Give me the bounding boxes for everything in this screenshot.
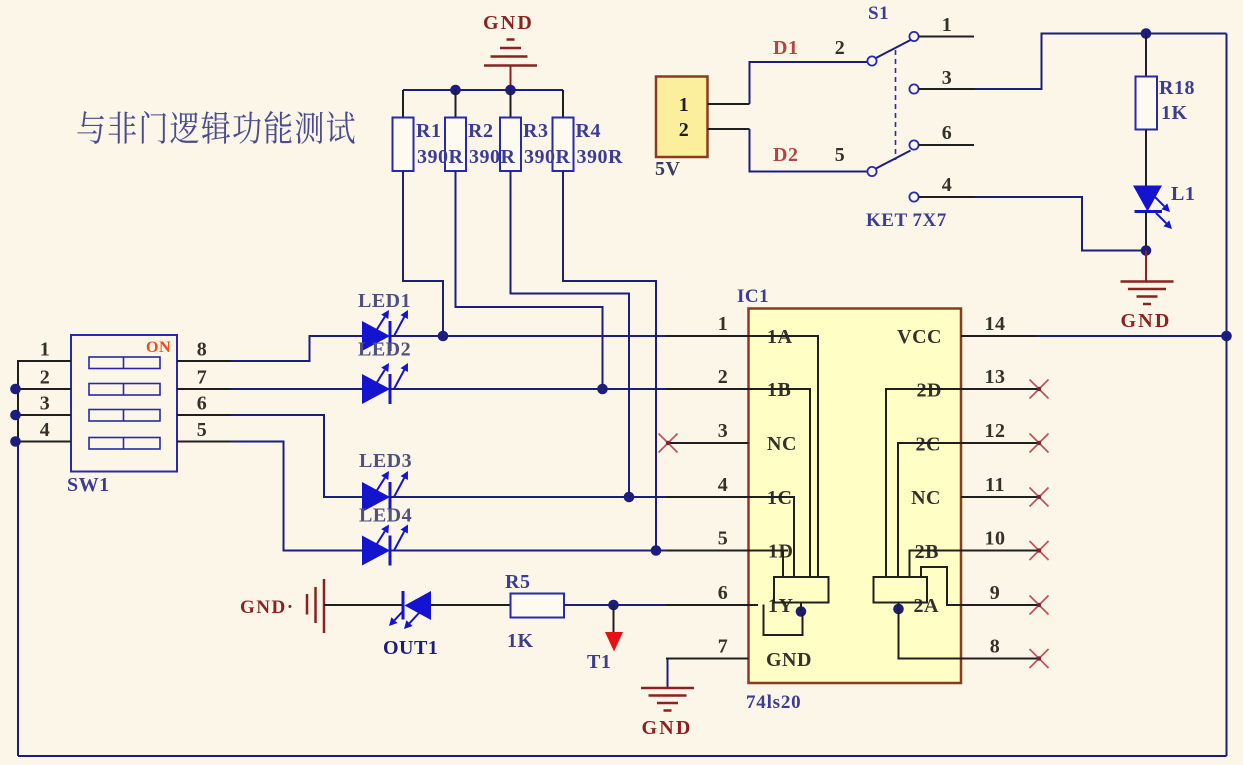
pin IC1-6 stub <box>666 604 749 606</box>
svg-text:GND: GND <box>483 12 534 34</box>
wire GND to OUT1 <box>324 604 403 606</box>
wire top resistor bus <box>403 89 563 91</box>
svg-text:NC: NC <box>911 487 941 509</box>
svg-text:D1: D1 <box>773 37 798 59</box>
no-connect X IC pin8 <box>1030 649 1049 668</box>
pin S1-4 stub <box>919 196 975 198</box>
svg-text:74ls20: 74ls20 <box>746 692 801 713</box>
wire IC internal 1B to gate <box>749 389 811 577</box>
svg-text:390R: 390R <box>524 146 571 168</box>
LED LED3 <box>362 471 408 512</box>
svg-text:8: 8 <box>990 636 1001 658</box>
wire IC internal 1C to gate <box>749 497 795 577</box>
node junction R18 top <box>1141 28 1152 39</box>
svg-text:5: 5 <box>718 528 729 550</box>
pin IC1-9 stub <box>961 604 1037 606</box>
node junction bus pin4 <box>10 436 21 447</box>
pin IC1-5 stub <box>666 550 749 552</box>
ground GND (below L1) <box>1120 251 1173 333</box>
pin 5V-2 stub <box>708 128 750 130</box>
pin S1-6 terminal circle <box>909 140 918 149</box>
pin S1-2 terminal circle <box>867 56 876 65</box>
wire L1 to GND node <box>1145 212 1147 251</box>
wire S1 pin3 to top rail <box>975 34 1227 90</box>
svg-text:GND: GND <box>766 649 812 671</box>
svg-text:2: 2 <box>679 119 690 141</box>
svg-text:6: 6 <box>942 122 953 144</box>
pin IC1-11 stub <box>961 496 1037 498</box>
svg-text:LED1: LED1 <box>358 290 411 312</box>
svg-text:R4: R4 <box>576 120 601 142</box>
IC U1 74ls20 body <box>749 309 962 684</box>
pin IC1-14 stub <box>961 335 1037 337</box>
wire net D2 (5V pin2 to S1 pin5) <box>750 129 868 172</box>
no-connect X IC pin13 <box>1030 380 1049 399</box>
svg-text:5: 5 <box>197 419 208 441</box>
svg-text:11: 11 <box>985 474 1005 496</box>
svg-text:1: 1 <box>718 313 729 335</box>
pin IC1-12 stub <box>961 442 1037 444</box>
pin SW1-7 stub <box>177 388 231 390</box>
svg-text:4: 4 <box>718 474 729 496</box>
wire bottom rail <box>18 755 1227 757</box>
pin 5V-1 stub <box>708 103 750 105</box>
pin S1-1 stub <box>919 36 974 38</box>
wire SW1 left pin 1 <box>17 360 71 362</box>
svg-text:4: 4 <box>942 174 953 196</box>
wire LED4 to IC pin5 (1D row) <box>390 550 666 552</box>
LED LED4 <box>362 525 408 566</box>
svg-text:3: 3 <box>718 420 729 442</box>
resistor R2 body <box>445 90 466 171</box>
resistor R4 body <box>553 90 574 171</box>
svg-text:1K: 1K <box>507 630 534 652</box>
wire IC internal 2A feed <box>921 567 961 605</box>
svg-text:390R: 390R <box>417 146 464 168</box>
node junction bus pin3 <box>10 410 21 421</box>
svg-text:12: 12 <box>985 420 1006 442</box>
svg-text:S1: S1 <box>868 3 889 24</box>
svg-text:IC1: IC1 <box>737 286 769 307</box>
svg-text:2: 2 <box>40 367 51 389</box>
svg-text:14: 14 <box>985 313 1006 335</box>
pin S1-3 terminal circle <box>909 84 918 93</box>
svg-text:KET 7X7: KET 7X7 <box>866 210 947 231</box>
svg-text:GND: GND <box>641 717 692 739</box>
svg-text:R5: R5 <box>505 571 530 593</box>
value label R2 390R <box>468 120 516 168</box>
svg-text:3: 3 <box>942 67 953 89</box>
gate body gate1 (1A-1D NAND) <box>774 577 829 603</box>
svg-text:6: 6 <box>197 393 208 415</box>
svg-text:GND: GND <box>1120 310 1171 332</box>
wire LED2 to IC pin2 (1B row) <box>390 388 666 390</box>
wire SW1 pin5 to LED4 <box>231 442 362 551</box>
pin S1-4 terminal circle <box>909 192 918 201</box>
svg-text:6: 6 <box>718 582 729 604</box>
resistor R5 1K <box>505 571 564 652</box>
wire OUT1 to R5 <box>431 604 511 606</box>
wire IC internal 1D to gate <box>749 550 789 552</box>
pin IC1-4 stub <box>666 496 749 498</box>
svg-text:OUT1: OUT1 <box>383 637 438 659</box>
pin S1-5 terminal circle <box>867 167 876 176</box>
svg-text:7: 7 <box>197 367 208 389</box>
wire IC internal 1A to gate <box>749 336 819 577</box>
switch S1 arm lower (pin5-pin6) <box>875 151 911 170</box>
LED OUT1 <box>389 591 431 629</box>
svg-text:VCC: VCC <box>897 326 942 348</box>
node junction R1/LED1 row <box>438 331 449 342</box>
power source 5V connector <box>655 77 708 181</box>
resistor R18 1K <box>1136 34 1195 187</box>
wire left bus (SW1 commons) lower <box>17 442 19 757</box>
pin IC1-13 stub <box>961 388 1037 390</box>
node junction R3-top / GND stem <box>505 85 516 96</box>
wire IC internal 2D to gate2 <box>886 389 961 577</box>
pin SW1-8 stub <box>177 360 231 362</box>
wire R5 to IC pin6 (1Y row) <box>564 604 666 606</box>
node junction R4/1D row <box>651 545 662 556</box>
wire IC internal gate2 to pin8 <box>899 609 962 659</box>
svg-text:LED4: LED4 <box>359 505 412 527</box>
LED LED1 <box>362 310 408 351</box>
node junction R3/1C row <box>624 492 635 503</box>
wire SW1 pin6 to LED3 <box>231 415 362 497</box>
svg-text:1: 1 <box>679 94 690 116</box>
switch SW1 DIP-4 <box>67 335 177 496</box>
wire R2 to LED2 row <box>456 171 603 389</box>
wire SW1 left pin 4 <box>17 441 71 443</box>
wire net D1 (5V pin1 to S1 pin2) <box>750 62 868 104</box>
switch S1 linkage dashed <box>895 50 897 160</box>
node junction R2/LED2 row <box>597 384 608 395</box>
pin IC1-1 stub <box>666 335 749 337</box>
pin IC1-3 stub (NC) <box>668 442 749 444</box>
svg-text:L1: L1 <box>1171 183 1195 205</box>
svg-text:R1: R1 <box>416 120 441 142</box>
value label R1 390R <box>416 120 464 168</box>
svg-text:1: 1 <box>942 14 953 36</box>
wire LED1 to IC pin1 (1A row) <box>390 335 666 337</box>
wire left bus (SW1 commons) upper <box>17 360 19 442</box>
svg-text:8: 8 <box>197 339 208 361</box>
wire S1 pin4 to L1 cathode net <box>975 197 1146 251</box>
wire IC internal 1Y loop <box>749 604 759 606</box>
node junction VCC pin14 / right rail <box>1221 331 1232 342</box>
ground GND (IC pin7) <box>641 659 694 740</box>
value label R3 390R <box>523 120 571 168</box>
pin S1-1 terminal circle <box>909 32 918 41</box>
pin IC1-7 stub <box>666 658 749 660</box>
svg-text:GND·: GND· <box>240 597 295 618</box>
svg-text:R18: R18 <box>1159 77 1195 99</box>
no-connect X IC pin10 <box>1030 541 1049 560</box>
svg-text:5V: 5V <box>655 158 681 180</box>
node gate1 output <box>796 606 807 617</box>
node junction T1 tap <box>608 600 619 611</box>
svg-text:D2: D2 <box>773 144 798 166</box>
svg-text:390R: 390R <box>469 146 516 168</box>
pin SW1-5 stub <box>177 441 231 443</box>
wire IC pin14 VCC to right rail <box>1037 335 1227 337</box>
svg-text:2: 2 <box>835 37 846 59</box>
pin SW1-6 stub <box>177 414 231 416</box>
svg-text:2C: 2C <box>916 434 941 456</box>
svg-text:ON: ON <box>146 339 171 356</box>
LED L1 <box>1133 186 1172 230</box>
svg-text:2B: 2B <box>915 541 939 563</box>
node gate2 output <box>893 604 904 615</box>
ground GND (top, above R1-R4) <box>483 12 537 90</box>
no-connect X IC pin3 <box>659 434 678 453</box>
LED LED2 <box>362 363 408 404</box>
svg-text:T1: T1 <box>587 651 611 673</box>
svg-text:13: 13 <box>985 366 1006 388</box>
svg-text:9: 9 <box>990 582 1001 604</box>
svg-text:LED2: LED2 <box>358 339 411 361</box>
testpoint T1 <box>587 605 623 673</box>
title 与非门逻辑功能测试 <box>77 111 354 144</box>
wire SW1 left pin 2 <box>17 388 71 390</box>
svg-text:4: 4 <box>40 419 51 441</box>
svg-text:SW1: SW1 <box>67 474 110 496</box>
wire R1 to LED1 row <box>403 171 443 336</box>
no-connect X IC pin9 <box>1030 596 1049 615</box>
wire VCC rail right side <box>1226 34 1228 757</box>
svg-text:R3: R3 <box>523 120 548 142</box>
svg-text:1K: 1K <box>1161 102 1188 124</box>
ground GND (left of OUT1, rotated) <box>240 579 324 633</box>
wire IC internal 2B to gate2 <box>910 551 962 578</box>
pin IC1-10 stub <box>961 550 1037 552</box>
resistor R3 body <box>500 90 521 171</box>
pin IC1-2 stub <box>666 388 749 390</box>
svg-text:7: 7 <box>718 636 729 658</box>
pin S1-3 stub <box>919 88 975 90</box>
wire IC internal 2C to gate2 <box>898 443 961 577</box>
svg-text:2D: 2D <box>917 380 942 402</box>
wire LED3 to IC pin4 (1C row) <box>390 496 666 498</box>
svg-text:LED3: LED3 <box>359 450 412 472</box>
switch S1 arm upper (pin2-pin1) <box>875 40 911 59</box>
gate body gate2 (2A-2D NAND) <box>874 577 928 603</box>
value label R4 390R <box>576 120 624 168</box>
svg-text:1: 1 <box>40 339 51 361</box>
wire SW1 pin7 to LED2 <box>231 388 362 390</box>
wire R4 to 1D row <box>563 171 656 551</box>
no-connect X IC pin11 <box>1030 488 1049 507</box>
pin S1-6 stub <box>919 144 974 146</box>
node junction R2-top <box>450 85 461 96</box>
svg-text:1Y: 1Y <box>768 595 794 617</box>
svg-text:10: 10 <box>985 528 1006 550</box>
wire SW1 pin8 to LED1 <box>231 336 362 361</box>
resistor R1 body <box>393 90 414 171</box>
svg-text:R2: R2 <box>468 120 493 142</box>
pin IC1-8 stub <box>961 658 1037 660</box>
no-connect X IC pin12 <box>1030 434 1049 453</box>
node junction L1-S1pin4 <box>1141 245 1152 256</box>
wire SW1 left pin 3 <box>17 414 71 416</box>
svg-text:390R: 390R <box>577 146 624 168</box>
switch S1 KET 7X7 <box>866 3 947 231</box>
svg-text:3: 3 <box>40 393 51 415</box>
node junction bus pin2 <box>10 384 21 395</box>
wire R3 to 1C row <box>511 171 630 497</box>
svg-text:2: 2 <box>718 366 729 388</box>
svg-text:NC: NC <box>767 433 797 455</box>
svg-text:5: 5 <box>835 144 846 166</box>
